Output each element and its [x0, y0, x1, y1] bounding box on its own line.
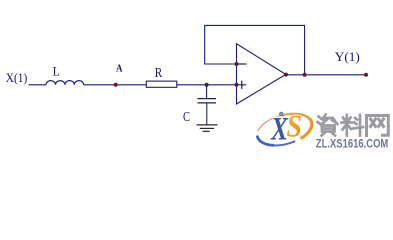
- feedback wire loop: [205, 25, 305, 74]
- junction dot at capacitor: [205, 83, 209, 87]
- capacitor top lead wire: [206, 85, 208, 98]
- svg-text:R: R: [155, 66, 163, 81]
- watermark character 料: [342, 115, 364, 136]
- feedback junction dot on output: [303, 73, 307, 77]
- wire from inductor to resistor: [84, 84, 147, 86]
- op-amp minus input mark: [237, 63, 246, 65]
- svg-text:Y(1): Y(1): [335, 49, 360, 64]
- svg-text:S: S: [287, 108, 303, 143]
- capacitor bottom lead wire: [206, 103, 208, 125]
- wire from X(1) to inductor: [29, 84, 47, 86]
- svg-text:A: A: [116, 63, 123, 75]
- wire from resistor to op-amp: [177, 84, 237, 86]
- non-inverting input junction dot: [235, 83, 239, 87]
- output end node dot: [364, 73, 368, 77]
- capacitor C plates: [198, 99, 217, 103]
- inverting input junction dot: [235, 62, 239, 66]
- op-amp output pin dot: [284, 73, 288, 77]
- op-amp U1 triangle: [237, 44, 286, 104]
- watermark sparkle dot: [280, 112, 284, 116]
- op-amp plus input mark: [237, 81, 246, 89]
- watermark logo ellipse ring: [254, 108, 316, 151]
- ground: [197, 125, 218, 131]
- watermark character 资: [318, 115, 338, 136]
- svg-text:C: C: [183, 110, 190, 125]
- inductor L: [46, 81, 84, 85]
- node A dot: [114, 83, 118, 87]
- svg-text:X(1): X(1): [6, 70, 28, 85]
- output wire: [286, 74, 367, 76]
- svg-text:L: L: [53, 64, 60, 79]
- svg-text:ZL.XS1616.COM: ZL.XS1616.COM: [316, 137, 389, 151]
- watermark character 网: [367, 116, 389, 136]
- resistor R: [146, 81, 177, 87]
